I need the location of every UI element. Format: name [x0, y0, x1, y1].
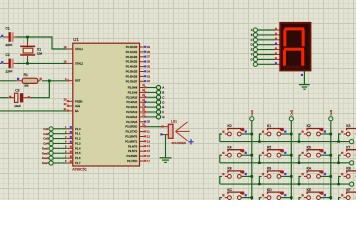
- svg-text:PSEN: PSEN: [75, 99, 82, 103]
- svg-text:K3: K3: [346, 124, 350, 128]
- svg-text:K8: K8: [227, 167, 231, 171]
- svg-text:P0.1/AD1: P0.1/AD1: [126, 50, 138, 54]
- svg-text:P2.0/A8: P2.0/A8: [128, 86, 138, 90]
- svg-text:C2: C2: [6, 53, 10, 57]
- svg-text:P0.4/AD4: P0.4/AD4: [126, 65, 138, 69]
- svg-text:P1.6: P1.6: [75, 156, 81, 160]
- svg-text:P2.2/A10: P2.2/A10: [126, 95, 138, 99]
- svg-text:P2.5/A13: P2.5/A13: [126, 110, 138, 114]
- svg-text:P0.3/AD3: P0.3/AD3: [126, 60, 138, 64]
- svg-text:LS1: LS1: [171, 119, 177, 123]
- svg-text:A: A: [251, 28, 253, 32]
- svg-text:P2.7/A15: P2.7/A15: [126, 120, 138, 124]
- svg-text:KB: KB: [346, 167, 351, 171]
- svg-text:X1: X1: [37, 48, 41, 52]
- svg-text:10uF: 10uF: [14, 104, 21, 108]
- svg-text:22PF: 22PF: [6, 43, 13, 47]
- svg-text:AT89C51: AT89C51: [72, 168, 87, 172]
- svg-text:KE: KE: [307, 188, 312, 192]
- svg-text:G: G: [251, 57, 253, 61]
- svg-text:D: D: [251, 43, 253, 47]
- svg-text:K9: K9: [267, 167, 271, 171]
- svg-text:P1.0: P1.0: [75, 127, 81, 131]
- svg-text:RST: RST: [75, 79, 81, 83]
- svg-text:Col1: Col1: [250, 109, 254, 115]
- svg-text:K6: K6: [307, 145, 311, 149]
- svg-text:P3.6/WR: P3.6/WR: [127, 154, 138, 158]
- svg-text:P1.5: P1.5: [75, 151, 81, 155]
- svg-text:KD: KD: [267, 188, 272, 192]
- svg-text:XTAL2: XTAL2: [75, 61, 84, 65]
- svg-text:B: B: [251, 33, 253, 37]
- svg-text:P0.2/AD2: P0.2/AD2: [126, 55, 138, 59]
- svg-text:P3.4/T0: P3.4/T0: [128, 144, 138, 148]
- svg-text:EA: EA: [75, 109, 79, 113]
- svg-text:P2.6/A14: P2.6/A14: [126, 115, 138, 119]
- svg-text:B: B: [162, 91, 164, 95]
- svg-text:KF: KF: [346, 188, 350, 192]
- svg-text:Col3: Col3: [43, 137, 49, 141]
- svg-text:P2.1/A9: P2.1/A9: [128, 90, 138, 94]
- svg-text:P1.1: P1.1: [75, 132, 81, 136]
- svg-text:ALE: ALE: [75, 104, 80, 108]
- svg-text:P3.0/RXD: P3.0/RXD: [125, 125, 137, 129]
- svg-text:P1.4: P1.4: [75, 146, 81, 150]
- svg-text:P3.5/T1: P3.5/T1: [128, 149, 138, 153]
- svg-text:Row3: Row3: [42, 156, 49, 160]
- svg-text:P0.6/AD6: P0.6/AD6: [126, 74, 138, 78]
- svg-text:K1: K1: [267, 124, 271, 128]
- svg-text:P3.2/INT0: P3.2/INT0: [125, 135, 138, 139]
- svg-text:K2: K2: [307, 124, 311, 128]
- svg-text:P1.3: P1.3: [75, 141, 81, 145]
- svg-text:P2.4/A12: P2.4/A12: [126, 105, 138, 109]
- svg-text:Col2: Col2: [290, 109, 294, 115]
- svg-text:Col2: Col2: [43, 132, 49, 136]
- svg-text:A: A: [162, 86, 164, 90]
- svg-text:C3: C3: [15, 89, 19, 93]
- svg-text:10k: 10k: [24, 84, 29, 88]
- svg-text:P0.5/AD5: P0.5/AD5: [126, 70, 138, 74]
- svg-text:K4: K4: [227, 145, 231, 149]
- svg-text:12M: 12M: [37, 53, 42, 56]
- svg-text:U1: U1: [73, 37, 79, 42]
- svg-text:K7: K7: [346, 145, 350, 149]
- svg-text:Col3: Col3: [329, 109, 333, 115]
- svg-text:KC: KC: [227, 188, 232, 192]
- svg-text:E: E: [162, 105, 164, 109]
- svg-text:SOUNDER: SOUNDER: [172, 141, 186, 145]
- svg-text:F: F: [162, 110, 164, 114]
- svg-text:P1.2: P1.2: [75, 137, 81, 141]
- svg-text:XTAL1: XTAL1: [75, 47, 84, 51]
- svg-text:P2.3/A11: P2.3/A11: [126, 100, 137, 104]
- svg-text:Row4: Row4: [42, 161, 49, 165]
- svg-text:R1: R1: [24, 73, 28, 77]
- svg-text:C1: C1: [6, 27, 10, 31]
- svg-text:P0.0/AD0: P0.0/AD0: [126, 45, 138, 49]
- svg-text:22PF: 22PF: [6, 70, 13, 74]
- svg-text:C: C: [251, 38, 253, 42]
- svg-text:Row2: Row2: [42, 151, 49, 155]
- svg-text:KA: KA: [307, 167, 312, 171]
- svg-text:P3.3/INT1: P3.3/INT1: [125, 139, 138, 143]
- svg-text:Col4: Col4: [43, 142, 49, 146]
- svg-text:Col1: Col1: [43, 127, 49, 131]
- svg-text:Row1: Row1: [42, 146, 49, 150]
- svg-text:P1.7: P1.7: [75, 161, 81, 165]
- svg-text:P3.1/TXD: P3.1/TXD: [126, 130, 138, 134]
- svg-text:K0: K0: [227, 124, 231, 128]
- svg-text:K5: K5: [267, 145, 271, 149]
- svg-text:E: E: [251, 48, 253, 52]
- svg-text:P0.7/AD7: P0.7/AD7: [126, 79, 138, 83]
- svg-text:P3.7/RD: P3.7/RD: [127, 159, 137, 163]
